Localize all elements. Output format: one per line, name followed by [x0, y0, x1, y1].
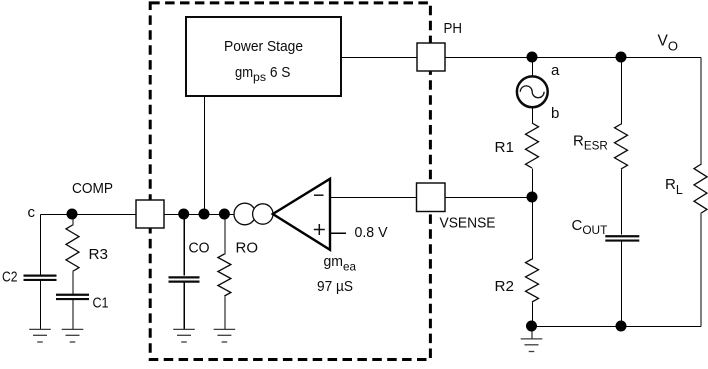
- svg-text:97 µS: 97 µS: [317, 278, 353, 295]
- wire Resr to Cout: [621, 170, 623, 235]
- node injection top dot: [527, 52, 538, 63]
- capacitor C2 branch wire: [40, 215, 42, 276]
- svg-text:CO: CO: [189, 239, 210, 256]
- capacitor Cout: [605, 236, 639, 240]
- ground under C2: [29, 329, 51, 342]
- summing node dot 3: [219, 209, 230, 220]
- resistor R3: [66, 225, 79, 272]
- resistor R3 stub: [72, 215, 74, 226]
- gm output stage circle left: [234, 203, 256, 225]
- svg-text:0.8 V: 0.8 V: [355, 224, 388, 241]
- svg-text:R1: R1: [495, 139, 515, 156]
- svg-text:R3: R3: [89, 246, 109, 263]
- wire Power Stage to PH pin: [342, 57, 418, 59]
- svg-text:C1: C1: [93, 295, 109, 312]
- ground under RO: [214, 329, 236, 342]
- wire RL to bottom rail: [700, 214, 702, 327]
- pin PH: [417, 43, 445, 71]
- svg-text:R2: R2: [495, 278, 515, 295]
- wire CO to ground: [183, 282, 185, 330]
- bottom rail left dot: [526, 321, 537, 332]
- svg-text:C2: C2: [2, 269, 18, 286]
- svg-text:PH: PH: [444, 20, 463, 37]
- gm output stage circle right: [253, 204, 273, 224]
- svg-text:b: b: [551, 105, 559, 122]
- wire divider node to R2: [532, 198, 534, 260]
- capacitor CO: [169, 277, 200, 281]
- reference stub 0.8V: [331, 232, 347, 234]
- node COMP junction dot: [67, 209, 78, 220]
- pin VSENSE: [417, 183, 446, 212]
- AC source probe: [517, 76, 548, 107]
- wire RO to ground: [224, 297, 226, 330]
- wire Power Stage output down to COMP node: [204, 97, 206, 215]
- IC boundary dashed box: [150, 3, 430, 360]
- wire R3 to C1: [72, 272, 74, 295]
- op-amp error amplifier gm ea: [273, 179, 330, 250]
- wire C2 to ground: [40, 281, 42, 330]
- ground bottom rail: [521, 339, 543, 352]
- node Resr top dot: [616, 52, 627, 63]
- wire PH to Vo corner: [446, 57, 702, 59]
- resistor R2: [526, 259, 539, 302]
- svg-text:Power Stage: Power Stage: [224, 38, 303, 55]
- wire VSENSE pin to divider node: [446, 197, 533, 199]
- wire R2 to ground rail: [532, 303, 534, 327]
- power stage block: [186, 17, 341, 96]
- capacitor C1: [56, 295, 89, 299]
- resistor RO branch wire upper: [224, 215, 226, 255]
- bottom ground rail wire: [532, 326, 701, 328]
- svg-text:VSENSE: VSENSE: [440, 214, 496, 231]
- wire AC source to R1: [532, 107, 534, 124]
- wire inverting input to VSENSE pin: [331, 197, 418, 199]
- node VSENSE divider dot: [527, 192, 538, 203]
- svg-text:RO: RO: [236, 239, 259, 256]
- wire C1 to ground: [72, 300, 74, 330]
- wire R1 to VSENSE node: [532, 169, 534, 198]
- pin COMP: [136, 200, 164, 228]
- ground under CO: [173, 329, 195, 342]
- wire Cout to ground rail: [621, 241, 623, 326]
- wire Vo node to Resr: [621, 58, 623, 125]
- bottom rail Cout dot: [616, 321, 627, 332]
- resistor RO: [218, 254, 231, 296]
- resistor Resr: [615, 124, 628, 169]
- svg-text:a: a: [551, 62, 560, 79]
- svg-text:COMP: COMP: [72, 180, 113, 197]
- capacitor C2: [24, 276, 57, 280]
- ground under C1: [62, 329, 84, 342]
- resistor R1: [526, 123, 539, 168]
- ground stem bottom rail: [531, 327, 533, 340]
- wire injection node to AC source: [532, 58, 534, 78]
- summing node dot 2: [199, 209, 210, 220]
- resistor RL: [694, 165, 707, 214]
- capacitor CO branch wire upper: [183, 215, 185, 276]
- wire Vo corner down to RL: [700, 58, 702, 166]
- svg-text:c: c: [28, 204, 36, 221]
- wire COMP pin to summing node: [165, 214, 236, 216]
- summing node dot 1: [178, 209, 189, 220]
- wire node c to COMP pin: [41, 214, 137, 216]
